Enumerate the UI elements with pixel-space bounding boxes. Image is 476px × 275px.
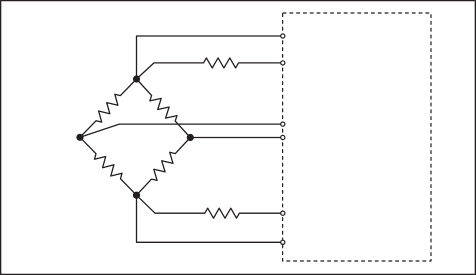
wire + resistor R6 (lead resistance, bottom) to terminal 5 (137, 195, 282, 218)
node (bridge top junction) (133, 75, 140, 82)
resistor R2 (bridge top-right arm) (137, 79, 191, 138)
resistor R4 (bridge bottom-right arm) (137, 138, 191, 196)
resistor R3 (bridge bottom-left arm) (80, 137, 137, 195)
node (bridge right junction) (187, 134, 194, 141)
node (bridge left junction) (76, 134, 83, 141)
wire: right node to terminal 4 (190, 137, 281, 139)
terminal 6 (281, 240, 285, 244)
wire: bottom node to terminal 6 (137, 195, 282, 242)
terminal 5 (281, 211, 285, 215)
terminal 2 (281, 61, 285, 65)
terminal 4 (281, 135, 285, 139)
wire: left node to terminal 3 (80, 124, 281, 137)
node (bridge bottom junction) (133, 192, 140, 199)
terminal 3 (281, 122, 285, 126)
wire: top node to terminal 1 (137, 36, 282, 79)
terminal 1 (281, 34, 285, 38)
instrument box (dashed) (283, 13, 431, 261)
resistor R1 (bridge top-left arm) (80, 79, 137, 137)
wire + resistor R5 (lead resistance, top) to terminal 2 (137, 58, 282, 79)
